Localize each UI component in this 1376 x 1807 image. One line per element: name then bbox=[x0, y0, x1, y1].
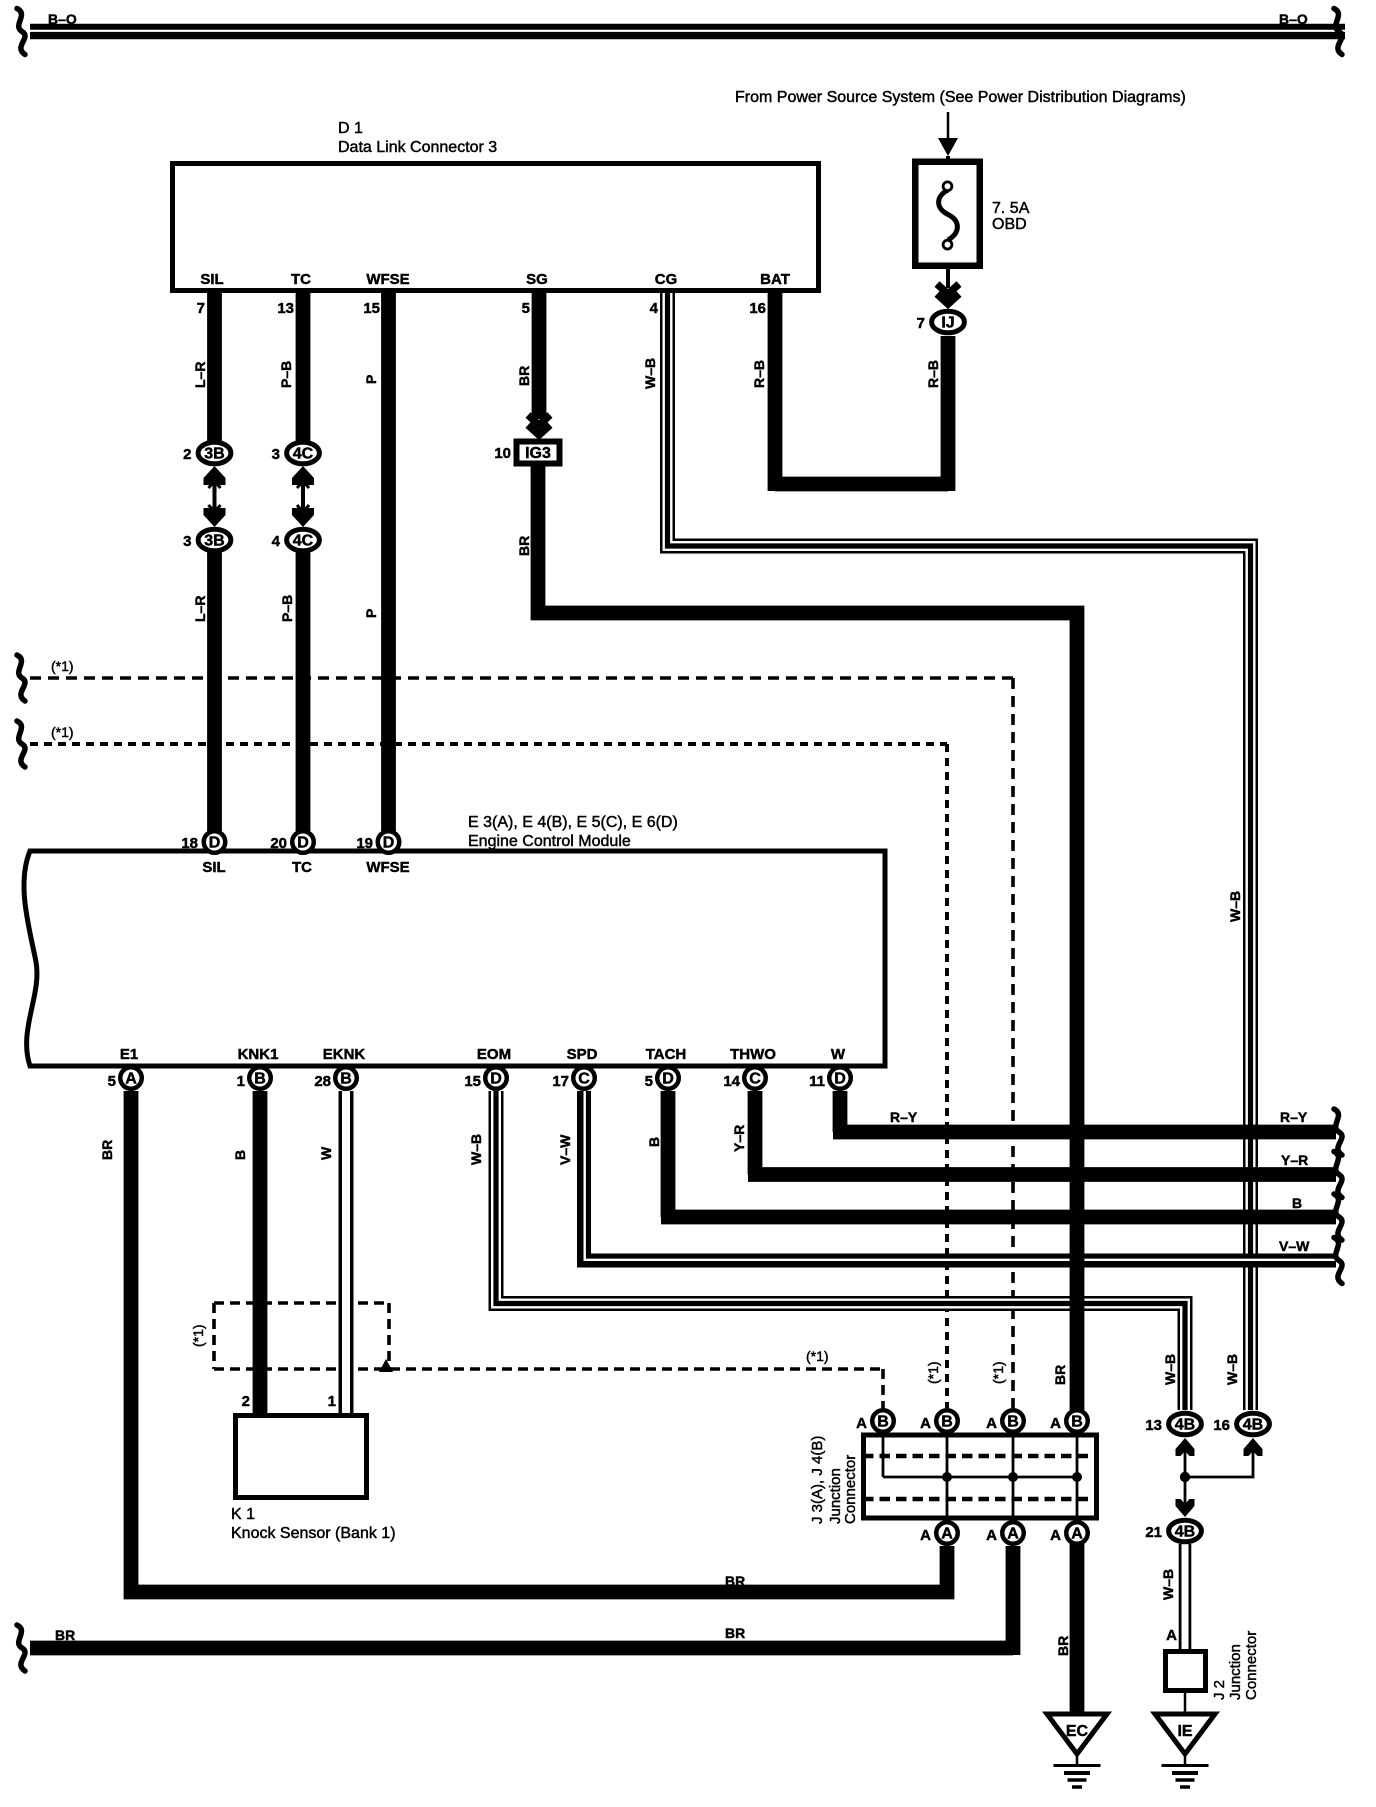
svg-text:18: 18 bbox=[181, 835, 198, 852]
svg-text:B: B bbox=[232, 1150, 248, 1160]
svg-text:A: A bbox=[1007, 1526, 1019, 1543]
svg-text:BR: BR bbox=[1055, 1636, 1071, 1656]
svg-text:4B: 4B bbox=[1175, 1524, 1195, 1541]
svg-text:V–W: V–W bbox=[557, 1134, 573, 1165]
svg-text:2: 2 bbox=[183, 446, 191, 463]
svg-text:4: 4 bbox=[650, 300, 659, 317]
svg-text:4C: 4C bbox=[293, 533, 314, 550]
svg-text:W–B: W–B bbox=[1227, 891, 1243, 922]
svg-text:19: 19 bbox=[356, 835, 373, 852]
svg-text:2: 2 bbox=[242, 1393, 250, 1410]
svg-text:J 3(A), J 4(B): J 3(A), J 4(B) bbox=[809, 1436, 826, 1524]
svg-text:A: A bbox=[1050, 1415, 1061, 1432]
svg-text:(*1): (*1) bbox=[806, 1348, 829, 1364]
svg-text:BR: BR bbox=[516, 366, 532, 386]
svg-text:14: 14 bbox=[723, 1073, 740, 1090]
svg-text:W–B: W–B bbox=[1224, 1354, 1240, 1385]
svg-text:B–O: B–O bbox=[48, 11, 77, 27]
svg-text:BR: BR bbox=[516, 536, 532, 556]
svg-text:D: D bbox=[490, 1071, 502, 1088]
svg-text:WFSE: WFSE bbox=[366, 859, 409, 876]
svg-text:A: A bbox=[920, 1527, 931, 1544]
svg-text:3: 3 bbox=[183, 533, 191, 550]
svg-text:16: 16 bbox=[749, 300, 766, 317]
svg-text:BR: BR bbox=[99, 1140, 115, 1160]
svg-text:Junction: Junction bbox=[1227, 1644, 1244, 1700]
svg-text:3: 3 bbox=[272, 446, 280, 463]
svg-text:4: 4 bbox=[272, 533, 281, 550]
svg-text:V–W: V–W bbox=[1279, 1238, 1310, 1254]
svg-text:P–B: P–B bbox=[279, 595, 295, 622]
svg-text:IE: IE bbox=[1177, 1723, 1192, 1740]
svg-text:13: 13 bbox=[1145, 1417, 1162, 1434]
svg-text:15: 15 bbox=[363, 300, 380, 317]
svg-text:(*1): (*1) bbox=[51, 658, 74, 674]
svg-text:R–Y: R–Y bbox=[1280, 1109, 1308, 1125]
svg-text:3B: 3B bbox=[204, 533, 224, 550]
svg-text:B: B bbox=[1292, 1195, 1302, 1211]
svg-text:4C: 4C bbox=[293, 446, 314, 463]
svg-text:1: 1 bbox=[328, 1393, 336, 1410]
svg-text:17: 17 bbox=[552, 1073, 569, 1090]
svg-text:SPD: SPD bbox=[567, 1046, 598, 1063]
svg-text:D 1: D 1 bbox=[338, 120, 363, 137]
svg-text:A: A bbox=[986, 1527, 997, 1544]
svg-text:BR: BR bbox=[1052, 1365, 1068, 1385]
svg-text:C: C bbox=[749, 1071, 761, 1088]
svg-text:A: A bbox=[1050, 1527, 1061, 1544]
svg-text:BR: BR bbox=[725, 1573, 745, 1589]
svg-text:W–B: W–B bbox=[642, 358, 658, 389]
svg-text:A: A bbox=[1071, 1526, 1083, 1543]
svg-text:7: 7 bbox=[917, 315, 925, 332]
svg-text:D: D bbox=[383, 835, 395, 852]
svg-text:(*1): (*1) bbox=[990, 1361, 1006, 1384]
svg-text:A: A bbox=[941, 1526, 953, 1543]
svg-text:Y–R: Y–R bbox=[731, 1125, 747, 1152]
svg-text:E 3(A), E 4(B), E 5(C), E 6(D): E 3(A), E 4(B), E 5(C), E 6(D) bbox=[468, 814, 678, 831]
svg-text:CG: CG bbox=[655, 271, 678, 288]
svg-text:KNK1: KNK1 bbox=[238, 1046, 279, 1063]
svg-text:L–R: L–R bbox=[192, 596, 208, 622]
svg-text:W–B: W–B bbox=[468, 1134, 484, 1165]
svg-text:From Power Source System (See: From Power Source System (See Power Dist… bbox=[735, 89, 1186, 106]
svg-text:IG3: IG3 bbox=[525, 445, 551, 462]
svg-text:W: W bbox=[831, 1046, 846, 1063]
svg-text:D: D bbox=[662, 1071, 674, 1088]
svg-text:P: P bbox=[363, 609, 379, 618]
svg-text:R–Y: R–Y bbox=[890, 1109, 918, 1125]
svg-text:B: B bbox=[646, 1137, 662, 1147]
svg-text:BAT: BAT bbox=[760, 271, 790, 288]
svg-text:7: 7 bbox=[197, 300, 205, 317]
svg-text:5: 5 bbox=[645, 1073, 653, 1090]
svg-text:EOM: EOM bbox=[477, 1046, 511, 1063]
svg-text:TACH: TACH bbox=[646, 1046, 687, 1063]
svg-text:D: D bbox=[209, 835, 221, 852]
svg-text:A: A bbox=[920, 1415, 931, 1432]
svg-text:11: 11 bbox=[809, 1073, 825, 1090]
svg-text:28: 28 bbox=[314, 1073, 331, 1090]
svg-text:TC: TC bbox=[291, 271, 311, 288]
svg-text:16: 16 bbox=[1213, 1417, 1230, 1434]
svg-text:B–O: B–O bbox=[1279, 11, 1308, 27]
svg-text:P–B: P–B bbox=[278, 361, 294, 388]
svg-text:J 2: J 2 bbox=[1211, 1680, 1228, 1700]
svg-text:Engine Control Module: Engine Control Module bbox=[468, 833, 631, 850]
svg-text:21: 21 bbox=[1145, 1524, 1162, 1541]
svg-text:R–B: R–B bbox=[925, 360, 941, 388]
svg-text:Connector: Connector bbox=[842, 1455, 859, 1524]
svg-text:TC: TC bbox=[292, 859, 312, 876]
svg-text:20: 20 bbox=[270, 835, 287, 852]
svg-text:EC: EC bbox=[1066, 1723, 1089, 1740]
svg-text:P: P bbox=[363, 375, 379, 384]
svg-text:W: W bbox=[318, 1146, 334, 1160]
svg-text:4B: 4B bbox=[1243, 1417, 1263, 1434]
svg-text:(*1): (*1) bbox=[51, 724, 74, 740]
svg-text:EKNK: EKNK bbox=[323, 1046, 366, 1063]
svg-text:BR: BR bbox=[55, 1627, 75, 1643]
svg-text:(*1): (*1) bbox=[925, 1361, 941, 1384]
svg-text:C: C bbox=[578, 1071, 590, 1088]
svg-text:Knock Sensor (Bank 1): Knock Sensor (Bank 1) bbox=[231, 1525, 396, 1542]
svg-text:BR: BR bbox=[725, 1625, 745, 1641]
svg-text:Data Link Connector 3: Data Link Connector 3 bbox=[338, 139, 497, 156]
svg-text:A: A bbox=[856, 1415, 867, 1432]
svg-text:15: 15 bbox=[464, 1073, 481, 1090]
svg-text:Y–R: Y–R bbox=[1281, 1152, 1308, 1168]
svg-text:D: D bbox=[297, 835, 309, 852]
svg-text:Connector: Connector bbox=[1243, 1631, 1260, 1700]
svg-text:E1: E1 bbox=[120, 1046, 138, 1063]
svg-text:13: 13 bbox=[277, 300, 294, 317]
svg-text:1: 1 bbox=[237, 1073, 245, 1090]
svg-text:W–B: W–B bbox=[1162, 1354, 1178, 1385]
svg-text:(*1): (*1) bbox=[190, 1324, 206, 1347]
svg-text:10: 10 bbox=[494, 445, 511, 462]
svg-text:B: B bbox=[941, 1414, 953, 1431]
svg-text:B: B bbox=[877, 1414, 889, 1431]
svg-text:B: B bbox=[1071, 1414, 1083, 1431]
svg-text:OBD: OBD bbox=[992, 216, 1027, 233]
svg-text:THWO: THWO bbox=[730, 1046, 776, 1063]
svg-text:W–B: W–B bbox=[1160, 1569, 1176, 1600]
svg-text:SG: SG bbox=[526, 271, 548, 288]
svg-text:R–B: R–B bbox=[751, 360, 767, 388]
svg-text:D: D bbox=[834, 1071, 846, 1088]
svg-text:A: A bbox=[125, 1071, 137, 1088]
svg-text:SIL: SIL bbox=[202, 859, 225, 876]
svg-text:WFSE: WFSE bbox=[366, 271, 409, 288]
svg-text:B: B bbox=[1007, 1414, 1019, 1431]
svg-text:B: B bbox=[340, 1071, 352, 1088]
svg-text:IJ: IJ bbox=[941, 315, 954, 332]
svg-text:5: 5 bbox=[108, 1073, 116, 1090]
svg-text:5: 5 bbox=[522, 300, 530, 317]
svg-text:SIL: SIL bbox=[200, 271, 223, 288]
svg-text:A: A bbox=[1166, 1627, 1177, 1644]
svg-text:B: B bbox=[254, 1071, 266, 1088]
svg-text:3B: 3B bbox=[204, 446, 224, 463]
svg-text:4B: 4B bbox=[1175, 1417, 1195, 1434]
svg-text:A: A bbox=[986, 1415, 997, 1432]
svg-text:L–R: L–R bbox=[192, 362, 208, 388]
svg-text:7. 5A: 7. 5A bbox=[992, 200, 1030, 217]
svg-text:K 1: K 1 bbox=[231, 1506, 255, 1523]
